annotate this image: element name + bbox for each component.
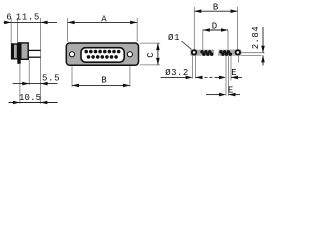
svg-text:A: A	[101, 15, 107, 25]
svg-text:10.5: 10.5	[19, 93, 41, 103]
svg-text:B: B	[101, 75, 107, 85]
svg-text:D: D	[212, 22, 217, 32]
svg-text:Ø1: Ø1	[168, 33, 180, 43]
svg-text:E: E	[228, 86, 233, 96]
svg-text:Ø3.2: Ø3.2	[165, 68, 188, 78]
svg-text:B: B	[213, 3, 219, 13]
svg-text:E: E	[231, 68, 236, 78]
svg-text:11.5: 11.5	[16, 12, 40, 22]
svg-text:2.84: 2.84	[251, 26, 261, 49]
svg-text:5.5: 5.5	[42, 74, 60, 84]
svg-text:C: C	[146, 52, 156, 58]
svg-text:6: 6	[6, 12, 11, 22]
